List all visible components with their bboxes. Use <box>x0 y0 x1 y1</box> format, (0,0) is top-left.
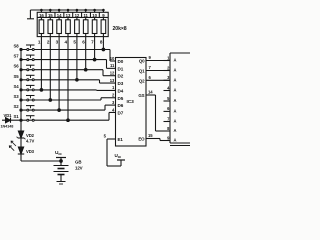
svg-text:A: A <box>174 128 177 133</box>
svg-text:A: A <box>174 88 177 93</box>
svg-text:D1: D1 <box>118 66 124 71</box>
svg-text:S8: S8 <box>13 44 19 49</box>
svg-text:Q1: Q1 <box>139 69 145 74</box>
svg-text:Q2: Q2 <box>139 78 145 83</box>
svg-text:VD1: VD1 <box>4 113 13 118</box>
svg-text:S4: S4 <box>13 84 19 89</box>
svg-text:12: 12 <box>110 71 115 76</box>
svg-text:A: A <box>174 138 177 143</box>
svg-text:S5: S5 <box>13 74 19 79</box>
svg-text:D7: D7 <box>118 110 124 115</box>
svg-text:14: 14 <box>57 13 62 18</box>
svg-text:Q0: Q0 <box>139 59 145 64</box>
svg-text:1N4148: 1N4148 <box>1 125 14 129</box>
svg-text:D0: D0 <box>118 59 124 64</box>
svg-text:VD3: VD3 <box>26 149 35 154</box>
svg-text:D2: D2 <box>118 74 124 79</box>
svg-text:A: A <box>174 58 177 63</box>
svg-text:S3: S3 <box>13 94 19 99</box>
svg-text:GS: GS <box>138 93 144 98</box>
svg-text:A: A <box>174 68 177 73</box>
svg-text:S7: S7 <box>13 54 19 59</box>
svg-text:12: 12 <box>75 13 80 18</box>
svg-text:S1: S1 <box>13 114 19 119</box>
svg-text:A: A <box>174 78 177 83</box>
svg-text:A: A <box>174 119 177 124</box>
svg-text:13: 13 <box>66 13 71 18</box>
svg-text:IC3: IC3 <box>127 99 135 105</box>
svg-text:EO: EO <box>138 137 145 142</box>
svg-text:S2: S2 <box>13 104 19 109</box>
svg-text:10: 10 <box>92 13 97 18</box>
svg-text:4.7V: 4.7V <box>26 139 35 144</box>
svg-text:D6: D6 <box>118 103 124 108</box>
svg-text:D5: D5 <box>118 96 124 101</box>
svg-text:20k×8: 20k×8 <box>113 26 127 32</box>
svg-text:A: A <box>174 98 177 103</box>
svg-text:13: 13 <box>110 78 115 83</box>
svg-text:16: 16 <box>39 13 44 18</box>
svg-text:11: 11 <box>83 13 88 18</box>
svg-text:14: 14 <box>148 89 153 94</box>
svg-text:S6: S6 <box>13 64 19 69</box>
svg-text:10: 10 <box>110 56 115 61</box>
svg-text:12V: 12V <box>75 166 83 171</box>
svg-text:A: A <box>174 109 177 114</box>
svg-text:VD2: VD2 <box>26 133 35 138</box>
svg-text:15: 15 <box>148 133 153 138</box>
svg-text:15: 15 <box>48 13 53 18</box>
svg-text:D4: D4 <box>118 88 124 93</box>
svg-text:GB: GB <box>75 160 81 165</box>
svg-text:E1: E1 <box>118 137 124 142</box>
svg-text:D3: D3 <box>118 81 124 86</box>
